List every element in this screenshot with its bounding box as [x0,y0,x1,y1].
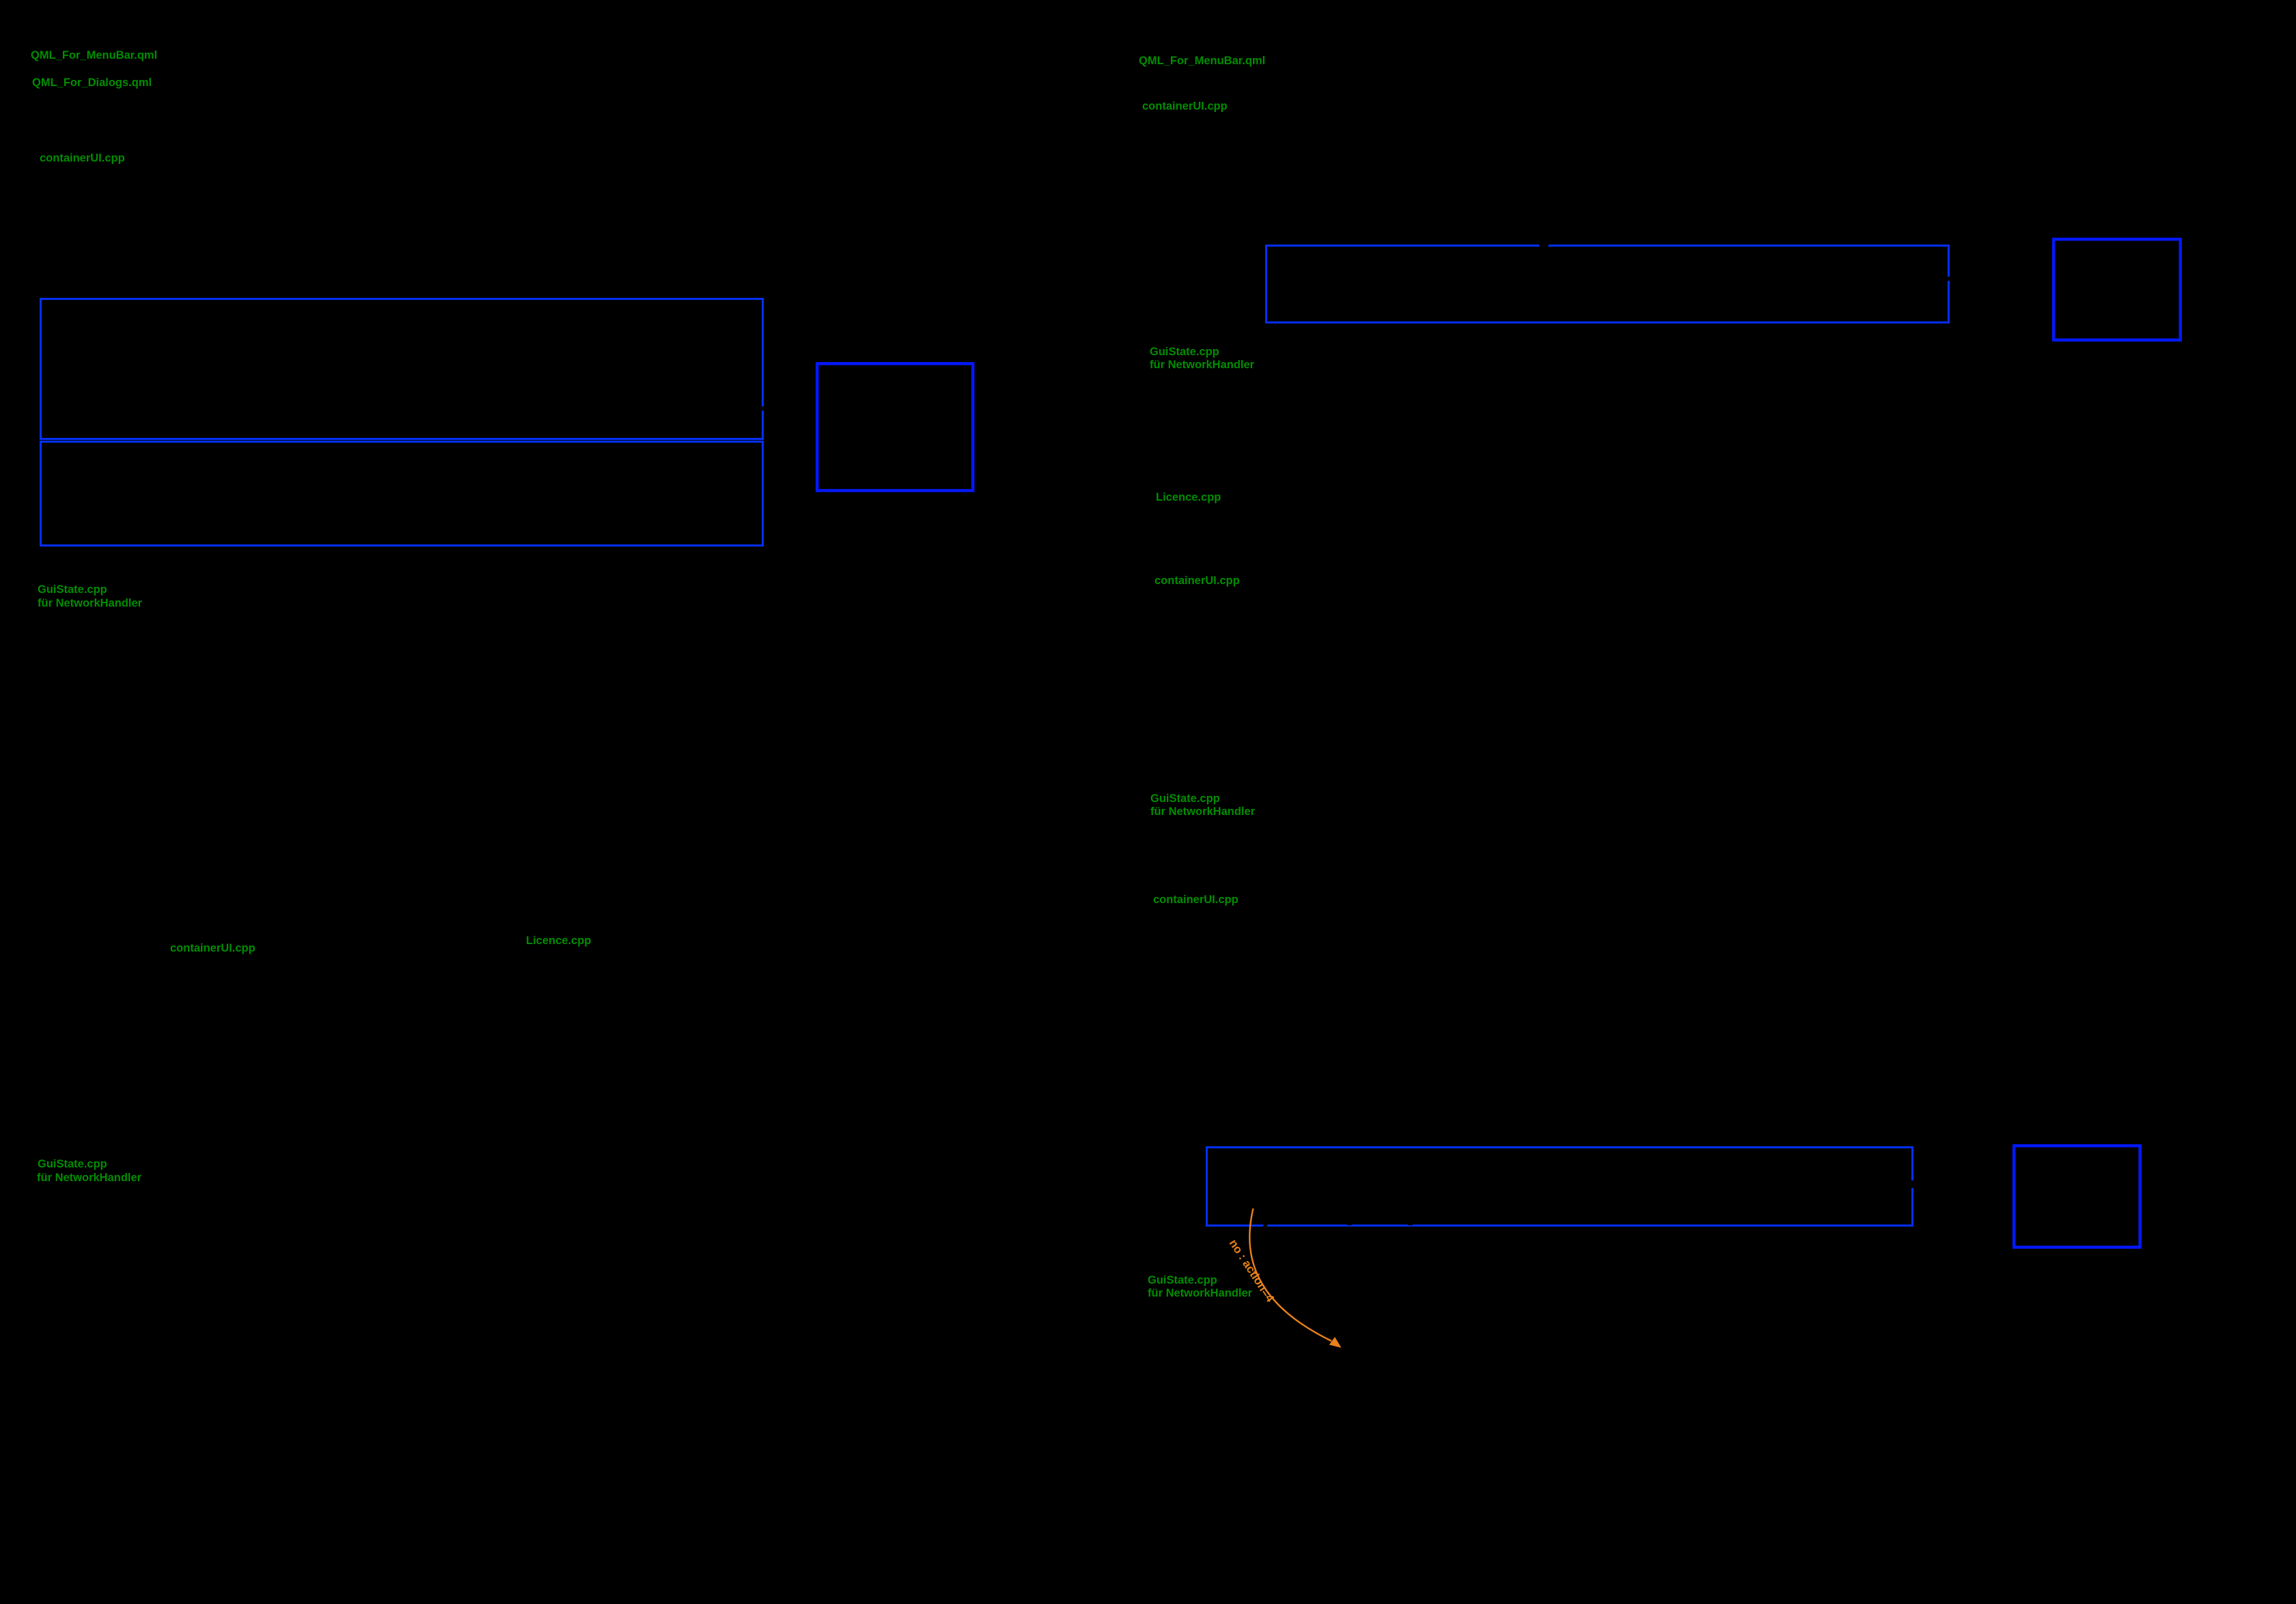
svg-text:Licence.cpp: Licence.cpp [1156,491,1221,503]
svg-text:QML_For_Dialogs.qml: QML_For_Dialogs.qml [32,77,152,89]
svg-text:für NetworkHandler: für NetworkHandler [1150,359,1255,371]
svg-text:GuiState.cpp: GuiState.cpp [38,583,107,596]
svg-text:containerUI.cpp: containerUI.cpp [1142,100,1228,113]
svg-text:containerUI.cpp: containerUI.cpp [1154,575,1240,587]
svg-text:GuiState.cpp: GuiState.cpp [1148,1274,1217,1286]
svg-text:für NetworkHandler: für NetworkHandler [38,597,143,609]
svg-text:QML_For_MenuBar.qml: QML_For_MenuBar.qml [1139,55,1265,67]
svg-text:GuiState.cpp: GuiState.cpp [38,1158,107,1170]
svg-text:für NetworkHandler: für NetworkHandler [1148,1287,1253,1299]
svg-text:GuiState.cpp: GuiState.cpp [1150,792,1220,805]
svg-text:für NetworkHandler: für NetworkHandler [37,1172,142,1184]
svg-text:GuiState.cpp: GuiState.cpp [1150,346,1219,358]
svg-text:containerUI.cpp: containerUI.cpp [40,152,125,165]
svg-text:für NetworkHandler: für NetworkHandler [1150,805,1256,818]
svg-text:containerUI.cpp: containerUI.cpp [1153,894,1239,906]
svg-text:containerUI.cpp: containerUI.cpp [170,942,255,954]
svg-text:QML_For_MenuBar.qml: QML_For_MenuBar.qml [31,49,157,61]
svg-text:Licence.cpp: Licence.cpp [526,935,591,947]
